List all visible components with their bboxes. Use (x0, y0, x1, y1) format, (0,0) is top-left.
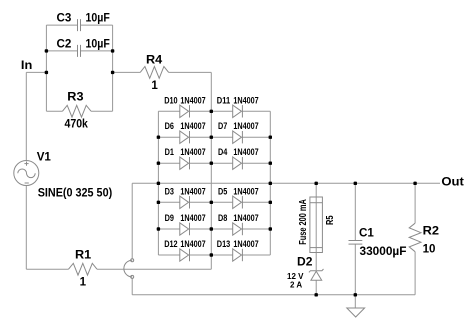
wire matrix center column (210, 111, 212, 269)
wire R3 row right (91, 110, 113, 112)
resistor R4 (140, 67, 169, 79)
capacitor C2 (77, 45, 79, 57)
junction D12-D13 center (210, 253, 213, 256)
wire diode row 1 left (158, 110, 179, 112)
wire C3 top right (81, 24, 113, 26)
junction output rail C1 (354, 182, 357, 185)
svg-text:1N4007: 1N4007 (233, 186, 258, 196)
resistor R1 (69, 263, 98, 275)
svg-text:1: 1 (80, 276, 87, 289)
junction D3 left rail (157, 201, 160, 204)
svg-text:D10: D10 (164, 95, 177, 105)
svg-text:2 A: 2 A (290, 281, 302, 290)
diode D3 (180, 196, 189, 208)
junction D6-D7 center (210, 136, 213, 139)
wire C1 top (354, 183, 356, 240)
svg-text:D7: D7 (218, 121, 227, 131)
wire diode row 5 right (211, 228, 232, 230)
wire diode row 4 left (158, 201, 179, 203)
wire diode row 3 left (158, 162, 179, 164)
wire hop vertical lower (131, 278, 133, 295)
svg-text:D2: D2 (297, 255, 312, 268)
junction output rail right rail (269, 182, 272, 185)
wire bottom rail (132, 294, 415, 296)
svg-text:10: 10 (423, 242, 436, 255)
wire left rail of RC block (45, 25, 47, 111)
diode D8 (233, 223, 242, 235)
svg-text:Fuse 200 mA: Fuse 200 mA (298, 199, 309, 245)
zener diode D2 (309, 269, 324, 272)
wire R3 row left (46, 110, 62, 112)
svg-text:1N4007: 1N4007 (233, 239, 258, 249)
wire hop vertical upper (131, 183, 133, 258)
svg-text:1N4007: 1N4007 (180, 147, 205, 157)
junction D10-D11 center (210, 110, 213, 113)
wire diode row 5 left (158, 228, 179, 230)
wire fuse column (315, 183, 317, 270)
svg-text:In: In (21, 59, 32, 72)
junction D9 left rail (157, 227, 160, 230)
junction bottom rail ground (354, 293, 357, 296)
svg-text:1N4007: 1N4007 (233, 95, 258, 105)
wire diode row 2 right (211, 136, 232, 138)
junction C2 left (45, 49, 48, 52)
junction output rail left rail (157, 182, 160, 185)
ground (347, 308, 365, 317)
svg-text:D5: D5 (218, 186, 227, 196)
junction output rail R2 (413, 182, 416, 185)
diode D13 (233, 249, 242, 261)
wire R4 row right (169, 71, 212, 73)
wire output rail (132, 182, 440, 184)
diode D1 (180, 157, 189, 169)
junction D1 left rail (157, 162, 160, 165)
svg-text:1N4007: 1N4007 (180, 186, 205, 196)
wire diode row 1 right (211, 110, 232, 112)
capacitor C1 (349, 240, 363, 242)
diode D6 (180, 131, 189, 143)
wire In to block (26, 71, 46, 73)
svg-text:33000µF: 33000µF (360, 245, 407, 258)
svg-text:R1: R1 (75, 249, 92, 262)
wire matrix right rail (269, 111, 271, 255)
svg-text:D4: D4 (218, 147, 227, 157)
wire D2 to bottom rail (315, 280, 317, 295)
svg-text:R2: R2 (423, 225, 439, 238)
svg-text:1: 1 (151, 79, 158, 92)
svg-text:1N4007: 1N4007 (233, 147, 258, 157)
diode D4 (233, 157, 242, 169)
junction bottom rail D2 (315, 293, 318, 296)
wire matrix left rail (157, 111, 159, 255)
svg-text:470k: 470k (65, 118, 89, 131)
wire diode row 3 right (211, 162, 232, 164)
junction output rail fuse (315, 182, 318, 185)
junction D8 right rail (269, 227, 272, 230)
svg-text:R5: R5 (325, 215, 336, 225)
wire hop over R1 wire (131, 259, 134, 262)
diode D9 (180, 223, 189, 235)
wire R1 row left (26, 268, 68, 270)
junction D4 right rail (269, 162, 272, 165)
svg-text:V1: V1 (37, 150, 52, 163)
svg-text:C1: C1 (359, 226, 374, 239)
svg-text:10µF: 10µF (86, 12, 110, 25)
junction R4 wire right rail (111, 71, 114, 74)
wire V1 bottom (25, 185, 27, 269)
wire R2 top (414, 183, 416, 223)
svg-text:1N4007: 1N4007 (180, 121, 205, 131)
junction In wire left rail (45, 71, 48, 74)
wire C3 top left (46, 24, 77, 26)
svg-text:R3: R3 (67, 91, 84, 104)
wire diode row 6 right (211, 254, 232, 256)
wire diode row 6 left (158, 254, 179, 256)
diode D10 (180, 105, 189, 117)
svg-text:10µF: 10µF (86, 37, 110, 50)
svg-text:D8: D8 (218, 213, 227, 223)
wire R2 bottom (414, 252, 416, 295)
junction D9-D8 center (210, 227, 213, 230)
svg-text:D9: D9 (165, 213, 174, 223)
svg-text:D1: D1 (165, 147, 174, 157)
junction D6 left rail (157, 136, 160, 139)
diode D5 (233, 196, 242, 208)
diode D12 (180, 249, 189, 261)
wire R1 row right (97, 268, 211, 270)
svg-text:1N4007: 1N4007 (180, 239, 205, 249)
svg-text:D12: D12 (164, 239, 177, 249)
wire C2 row left (46, 50, 77, 52)
capacitor C3 (77, 19, 79, 31)
junction C2 right (111, 49, 114, 52)
wire R4 row left (113, 71, 141, 73)
svg-text:D6: D6 (165, 121, 174, 131)
wire right rail of RC block (112, 25, 114, 111)
resistor R3 (63, 105, 92, 117)
wire ground stub (354, 295, 356, 308)
svg-text:D11: D11 (217, 95, 230, 105)
wire C2 row right (81, 50, 113, 52)
diode D7 (233, 131, 242, 143)
svg-text:D13: D13 (217, 239, 230, 249)
wire V1 top (25, 72, 27, 160)
wire diode row 4 right (211, 201, 232, 203)
svg-text:SINE(0 325 50): SINE(0 325 50) (38, 187, 113, 200)
svg-text:C2: C2 (57, 37, 72, 50)
wire C1 bottom (354, 244, 356, 295)
voltage source V1 (14, 161, 39, 186)
junction D3-D5 center (210, 201, 213, 204)
wire diode row 2 left (158, 136, 179, 138)
svg-text:R4: R4 (146, 54, 163, 67)
svg-text:1N4007: 1N4007 (233, 121, 258, 131)
junction D5 right rail (269, 201, 272, 204)
svg-text:1N4007: 1N4007 (180, 95, 205, 105)
resistor R2 (409, 223, 421, 252)
svg-text:1N4007: 1N4007 (180, 213, 205, 223)
svg-text:C3: C3 (57, 12, 72, 25)
wire R4 drop to bridge (210, 72, 212, 111)
fuse R5 body (310, 197, 323, 253)
svg-text:1N4007: 1N4007 (233, 213, 258, 223)
diode D11 (233, 105, 242, 117)
junction D7 right rail (269, 136, 272, 139)
junction D1-D4 center (210, 162, 213, 165)
svg-text:D3: D3 (165, 186, 174, 196)
svg-text:Out: Out (441, 176, 464, 189)
